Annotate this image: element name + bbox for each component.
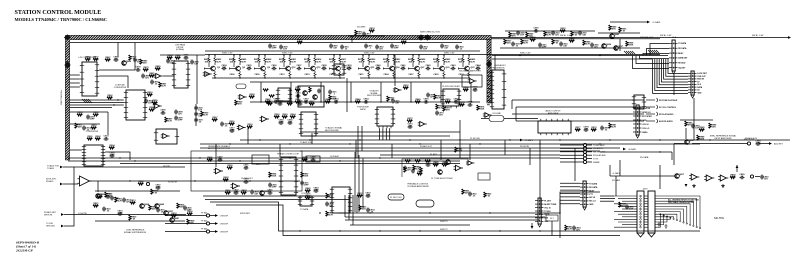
svg-text:100K: 100K (271, 176, 276, 178)
svg-text:4.7K: 4.7K (144, 68, 149, 71)
wire mid rail 144 (200, 143, 700, 145)
label PL IN (470, 138, 480, 140)
svg-text:MULTIPLEXER: MULTIPLEXER (325, 130, 339, 132)
svg-text:MIC HI: MIC HI (589, 197, 595, 199)
wire J1 drop (673, 74, 675, 95)
junction on loop A (419, 230, 420, 231)
svg-text:10K: 10K (224, 179, 228, 181)
wire stage bus 82 (250, 81, 470, 83)
amplifier stage at x=366 (358, 54, 376, 78)
junction on loop A (339, 230, 340, 231)
label PGM DIVIDE (357, 107, 369, 109)
wire to J1 pin (647, 49, 670, 56)
svg-text:TX INH: TX INH (544, 211, 551, 213)
svg-text:100K: 100K (78, 114, 83, 116)
arrow dn (685, 184, 688, 187)
junction (440, 101, 441, 102)
junction on loop A (299, 230, 300, 231)
resistor (484, 192, 492, 198)
svg-text:PL/DPL ENCODER: PL/DPL ENCODER (442, 86, 460, 88)
wire tp lead (165, 223, 206, 225)
label PL RET (430, 154, 438, 156)
wire vert x460 (459, 120, 461, 158)
detector box U821b (306, 156, 320, 162)
svg-text:100K: 100K (331, 99, 336, 101)
resistor (433, 161, 439, 166)
resistor (87, 136, 93, 140)
label INPUT AMPLIFIER (715, 137, 733, 140)
svg-text:22K: 22K (326, 101, 330, 103)
wire rail 213 (338, 212, 560, 214)
capacitor (468, 101, 474, 106)
svg-text:INPUT AMPLIFIER: INPUT AMPLIFIER (715, 137, 733, 140)
svg-text:33PF: 33PF (234, 192, 240, 194)
power bus SWB+ main L-shape (65, 35, 491, 160)
label REFERENCE SIGNAL (208, 145, 230, 148)
capacitor (122, 198, 131, 204)
resistor (282, 114, 288, 118)
svg-text:PL IN 9.6B: PL IN 9.6B (470, 138, 480, 140)
mic amp box (462, 75, 482, 87)
svg-text:100K: 100K (291, 116, 296, 118)
label RX AUD (745, 137, 758, 140)
junction rail 213 (559, 212, 560, 213)
wire RX AUD to buffer (63, 183, 78, 185)
wire mesh 136 (310, 135, 450, 137)
resistor (357, 193, 363, 197)
op-amp buffer B (704, 175, 714, 181)
svg-text:10K: 10K (383, 61, 387, 63)
svg-text:EXT SPKR: EXT SPKR (642, 116, 652, 118)
svg-text:33PF: 33PF (394, 48, 400, 50)
svg-text:4.7K: 4.7K (204, 114, 209, 117)
wire arrow stub (531, 223, 533, 226)
label TEST POINT (743, 139, 755, 141)
svg-text:22K: 22K (288, 103, 292, 105)
svg-text:22K: 22K (152, 209, 156, 211)
box U827 (478, 173, 490, 180)
svg-text:22K: 22K (98, 196, 102, 198)
svg-text:SWB+ 9.6V: SWB+ 9.6V (444, 52, 455, 54)
svg-text:33PF: 33PF (178, 120, 184, 122)
wire volume out (504, 118, 538, 120)
svg-text:1 KHZ RF: 1 KHZ RF (220, 215, 229, 217)
resistor (569, 37, 575, 42)
label VOLTAGE (301, 192, 311, 195)
svg-text:RX PONE FLAT AUD: RX PONE FLAT AUD (659, 99, 678, 102)
junction (249, 180, 250, 181)
label GRN LED (46, 226, 55, 228)
svg-text:DATA DET: DATA DET (678, 57, 688, 60)
wire vert x540 (539, 140, 541, 215)
wire to J1 pin (633, 56, 670, 69)
svg-text:22K: 22K (298, 41, 302, 43)
capacitor (740, 174, 746, 179)
op-amp U818B (483, 113, 492, 118)
svg-text:+B DAPL: +B DAPL (628, 148, 637, 151)
label AMPLIFIER (548, 112, 559, 115)
resistor (269, 172, 277, 178)
svg-text:100K: 100K (531, 39, 536, 41)
amplifier stage at x=466 (458, 54, 476, 78)
wire to J1 pin (650, 44, 669, 56)
svg-text:100K: 100K (370, 30, 375, 32)
resistor (95, 136, 101, 140)
capacitor row (234, 189, 240, 194)
svg-text:100K: 100K (699, 139, 704, 141)
capacitor (244, 164, 250, 169)
ground (692, 184, 696, 187)
transistor in U808 (303, 91, 308, 96)
resistor (463, 87, 469, 91)
IC U830 stage block (332, 64, 346, 75)
svg-text:MODELS TTN4094C / TRN7900C / C: MODELS TTN4094C / TRN7900C / CLN6686C (15, 17, 107, 22)
junction (129, 180, 130, 181)
capacitor (194, 112, 203, 118)
block U808 outline (298, 86, 324, 107)
svg-text:C821: C821 (359, 74, 365, 76)
label VOLTAGE AMPLIFIERS (407, 185, 429, 188)
svg-text:33PF: 33PF (170, 63, 176, 65)
capacitor (110, 196, 119, 202)
svg-text:4.7K: 4.7K (292, 60, 297, 63)
svg-text:J2/P2: J2/P2 (642, 189, 648, 191)
label tp signal (220, 223, 229, 225)
resistor second row (325, 98, 331, 103)
capacitor (325, 202, 334, 208)
bus diamond junction 2 (424, 34, 431, 40)
wire U817 pin drop (379, 128, 381, 140)
svg-text:C815: C815 (305, 74, 311, 76)
label PHASE LOCKED LOOP (277, 153, 299, 156)
resistor (329, 95, 337, 101)
wire U817 pin drop (385, 128, 387, 140)
svg-text:4.7K: 4.7K (242, 60, 247, 63)
capacitor (317, 89, 321, 94)
label ACTIVITY DETECTORS (208, 147, 230, 150)
svg-text:PL DET 9.6V: PL DET 9.6V (390, 197, 402, 199)
op-amp buffer A (689, 174, 699, 180)
test point (206, 214, 209, 217)
wire J2 link (560, 192, 600, 213)
svg-text:Q847: Q847 (174, 217, 180, 220)
arrow tp (215, 230, 218, 233)
resistor second row (265, 98, 271, 103)
connector J5 (580, 181, 598, 210)
wire stage drop (380, 82, 382, 102)
svg-text:Q817: Q817 (679, 174, 685, 176)
junction (290, 101, 291, 102)
capacitor (760, 175, 769, 181)
wire rail 225 (350, 224, 470, 226)
connector J1 (669, 40, 688, 74)
label +5 DAPL rail (525, 139, 534, 142)
wire to J3 pin (668, 59, 688, 73)
wire tp (587, 144, 592, 146)
svg-text:33PF: 33PF (272, 187, 278, 189)
arrow (61, 225, 64, 228)
resistor (149, 107, 155, 111)
label RATIO (360, 108, 366, 111)
svg-text:10K: 10K (275, 116, 279, 118)
IC U813 audio processor (490, 70, 506, 109)
svg-text:UNI AUDIO: UNI AUDIO (593, 147, 604, 150)
capacitor bypass (329, 44, 338, 50)
wire to J3 pin (666, 59, 688, 76)
resistor (212, 117, 218, 121)
wire vert x358 (357, 126, 359, 158)
label 16.8MHZ (330, 156, 340, 158)
capacitor second row (454, 98, 460, 103)
op-amp noise (203, 72, 212, 77)
svg-text:RX AUD 9.6T: RX AUD 9.6T (420, 145, 433, 148)
resistor (387, 96, 395, 102)
svg-text:47K: 47K (464, 88, 468, 91)
svg-text:1 KHZ RF: 1 KHZ RF (78, 213, 88, 215)
wire vert x495 (494, 55, 496, 70)
svg-text:TX PL: TX PL (593, 158, 599, 160)
IC U805 U/D converter (82, 145, 105, 166)
label U/D CONVERTER (86, 131, 99, 133)
wire filter feed (160, 54, 205, 56)
wire tp stub (210, 223, 215, 225)
svg-text:33PF: 33PF (230, 130, 236, 132)
wire J5 feed (560, 193, 580, 195)
op-amp U804A (161, 134, 170, 139)
wire A/D bus 4 (70, 107, 112, 109)
svg-text:SW B+ 9.6V: SW B+ 9.6V (752, 35, 764, 37)
junction (519, 55, 520, 56)
coupling capacitor (297, 65, 303, 70)
capacitor (174, 116, 183, 122)
label TX AUD 9.6V (47, 165, 60, 168)
pill box level (388, 194, 404, 200)
svg-text:RX MUTE: RX MUTE (520, 146, 530, 148)
label RX DATA (640, 156, 649, 159)
svg-text:4.7K: 4.7K (446, 60, 451, 63)
svg-text:SW B+ 9.6V: SW B+ 9.6V (560, 35, 572, 37)
wire J3 drop (693, 98, 695, 140)
wire A/D bus 3 (70, 104, 124, 106)
svg-text:4.7K: 4.7K (217, 60, 222, 63)
resistor (521, 39, 529, 45)
wire vert x216 (215, 144, 217, 167)
resistor second row (355, 98, 361, 103)
wire U813 pin feed (487, 100, 490, 102)
detector box U821 (252, 155, 269, 164)
svg-text:33PF: 33PF (314, 190, 320, 192)
wire vert x610 (609, 165, 611, 176)
wire tp stub (210, 215, 215, 217)
capacitor second row (364, 97, 370, 103)
wire ref amp out (692, 143, 747, 145)
resistor (434, 94, 442, 100)
label tp (593, 144, 605, 147)
svg-text:10K: 10K (408, 61, 412, 63)
svg-text:47K: 47K (512, 35, 516, 38)
label TP (201, 212, 208, 214)
label TP (201, 228, 208, 230)
svg-text:GND: GND (544, 221, 549, 223)
wire buffer chain in (610, 175, 675, 177)
coupling capacitor (222, 64, 228, 70)
IC U822 phase locked loop (279, 157, 298, 195)
wire stage emitter bus 2 (360, 77, 470, 79)
label RX AUD 9.6T (420, 145, 433, 148)
svg-text:SWITCHED B+ 9.6V: SWITCHED B+ 9.6V (420, 32, 441, 34)
junction rail 140 (259, 139, 260, 140)
arrow up (736, 165, 739, 168)
resistor (187, 219, 195, 225)
resistor (697, 135, 705, 141)
svg-text:ACTIVITY DETECTORS: ACTIVITY DETECTORS (208, 147, 230, 150)
wire tp (587, 154, 592, 156)
transistor (170, 217, 180, 222)
transistor (140, 203, 150, 208)
resistor second row (445, 99, 451, 103)
IC U801 low pass filter (172, 61, 190, 88)
svg-text:RX AUD: RX AUD (46, 180, 54, 183)
svg-text:VOL 10: VOL 10 (544, 207, 550, 209)
wire jack feed vert b (515, 107, 517, 121)
capacitor (538, 43, 547, 49)
label PGM AUDIO (494, 64, 506, 67)
label AUDIO OUTPUT (545, 110, 561, 113)
wire vert x280 (279, 144, 281, 157)
svg-text:CLK: CLK (697, 84, 702, 86)
svg-text:SWB TX: SWB TX (440, 229, 448, 231)
transistor (155, 203, 165, 208)
resistor (626, 41, 634, 47)
wire U800 in4 (70, 86, 80, 88)
capacitor bypass (364, 44, 373, 50)
wire vert x660 (659, 165, 661, 189)
transistor (614, 46, 624, 51)
capacitor (473, 86, 479, 91)
svg-text:PROCESSOR: PROCESSOR (492, 67, 505, 69)
svg-text:VOLTAGE AMPLIFIERS: VOLTAGE AMPLIFIERS (407, 185, 429, 188)
label tp signal (220, 231, 229, 233)
capacitor (114, 56, 120, 61)
svg-text:100K: 100K (230, 123, 235, 125)
arrow down (531, 226, 534, 229)
svg-text:PL TONE ELECTRONIC: PL TONE ELECTRONIC (431, 178, 453, 180)
wire U813 pin feed (487, 83, 490, 85)
IC U819 audio output amp (538, 119, 571, 135)
wire TX AUD run (63, 166, 185, 168)
junction rail 140 (659, 139, 660, 140)
wire U800 in2 (70, 78, 80, 80)
svg-text:47K: 47K (131, 201, 135, 204)
svg-text:47K: 47K (576, 128, 580, 131)
svg-text:SPARE: SPARE (593, 161, 600, 164)
capacitor (691, 124, 700, 130)
resistor (227, 165, 233, 169)
resistor (249, 94, 255, 98)
wire U824 pin drop b (348, 195, 350, 220)
wire J2 feed long 2 (600, 198, 615, 200)
svg-text:100K: 100K (226, 192, 231, 194)
wire U813 pin feed (487, 92, 490, 94)
capacitor (136, 66, 142, 71)
label RX AUD RET (44, 211, 57, 214)
test point (146, 182, 149, 185)
wire stage drop (260, 82, 262, 102)
svg-text:TX DATA: TX DATA (589, 183, 598, 186)
resistor (583, 40, 591, 46)
wire tp lead (165, 231, 206, 233)
arrow tp (215, 214, 218, 217)
coupling capacitor (247, 65, 253, 70)
wire vert x197 (196, 55, 198, 104)
label LOW PASS (175, 44, 186, 47)
coupling capacitor (376, 64, 382, 70)
capacitor (141, 74, 150, 80)
op-amp U820B (231, 183, 241, 189)
capacitor bypass (419, 45, 428, 51)
label PROCESSOR (492, 67, 505, 69)
svg-text:22K: 22K (156, 68, 160, 70)
svg-text:47K: 47K (402, 40, 406, 43)
junction rail 213 (369, 212, 370, 213)
svg-text:4.7K: 4.7K (267, 60, 272, 63)
IC U825 (298, 196, 314, 206)
IC U824 (330, 187, 352, 213)
transistor (164, 211, 174, 216)
label PL DET (390, 197, 402, 199)
capacitor bypass (375, 45, 384, 51)
label FEEDBACK CONTROL (407, 183, 429, 186)
label FLT (550, 218, 554, 220)
capacitor (408, 123, 414, 128)
label PL/DPL ENCODER (442, 86, 460, 88)
label CLOCK (163, 166, 171, 168)
capacitor bypass (390, 44, 399, 50)
svg-text:4.7K: 4.7K (283, 115, 288, 118)
wire to volume (481, 118, 489, 120)
op-amp U820A (214, 168, 224, 174)
resistor (105, 192, 113, 198)
svg-text:TX DATA: TX DATA (678, 42, 687, 45)
junction rail 144 (419, 143, 420, 144)
label TX LSD (46, 223, 54, 225)
IC U817 (375, 107, 395, 128)
capacitor (296, 92, 302, 97)
amplifier stage at x=312 (304, 54, 322, 78)
svg-text:33PF: 33PF (304, 185, 310, 187)
capacitor (403, 166, 412, 172)
junction rail 144 (479, 143, 480, 144)
arrow +5 DAPL (520, 139, 523, 142)
svg-text:47K: 47K (238, 103, 242, 106)
capacitor (468, 192, 477, 198)
wire drop x672 (671, 152, 673, 160)
svg-text:PL/DPL DET: PL/DPL DET (241, 178, 253, 180)
svg-text:47K: 47K (561, 29, 565, 32)
capacitor (435, 111, 444, 117)
connector J6 (535, 198, 557, 227)
resistor (619, 202, 627, 208)
resistor (85, 56, 91, 60)
wire mid rail 140 (240, 139, 790, 141)
label SWB+ 9.6V (222, 52, 233, 54)
jack contacts block (646, 98, 678, 123)
wire to jack row 2 (516, 106, 644, 108)
svg-text:+5 DAPL: +5 DAPL (652, 21, 662, 24)
wire U824 pin drop c (352, 195, 354, 225)
wire vert x620b (619, 160, 621, 176)
resistor (287, 101, 293, 105)
